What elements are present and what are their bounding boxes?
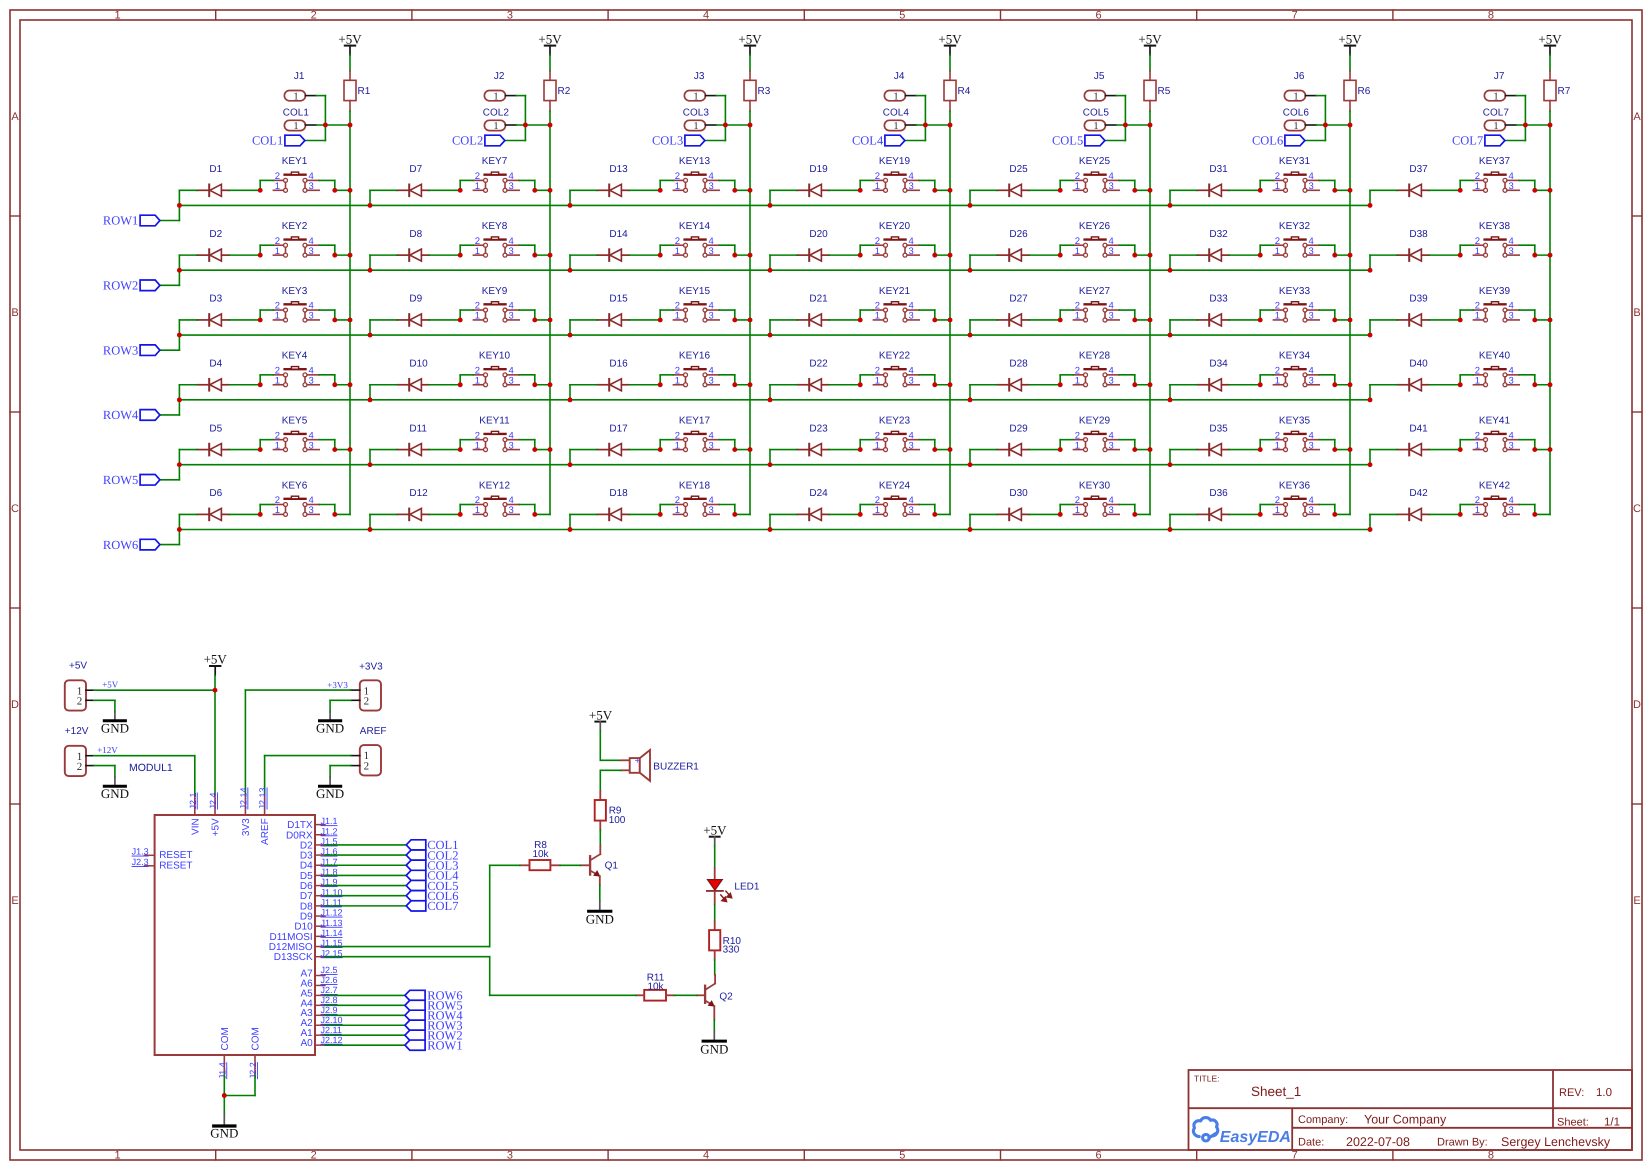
svg-text:R4: R4 [958,86,971,97]
MODUL1 pin D8 (J1.11) [300,897,342,912]
svg-text:KEY1: KEY1 [282,156,308,167]
svg-text:1: 1 [475,505,480,516]
MODUL1 pin A1 (J2.11) [300,1025,341,1039]
wire D4 to COL3 flag [325,864,406,866]
power +5V column 4 [938,31,962,55]
svg-text:1: 1 [475,440,480,451]
wire BUZZER1 to R9 [600,770,620,791]
svg-text:1: 1 [875,376,880,387]
key switch KEY17 [673,415,719,451]
diode D16 [597,358,629,390]
MODUL1 pin A3 (J2.9) [300,1005,337,1019]
wire D5 leads [179,450,260,465]
svg-text:D33: D33 [1209,294,1228,305]
wire A4 to ROW5 flag [325,1004,405,1006]
svg-text:COL7: COL7 [1483,108,1510,119]
svg-text:3: 3 [709,440,714,451]
svg-text:COL4: COL4 [852,134,884,148]
svg-text:1: 1 [1475,311,1480,322]
wire ROW1 bus [160,205,1370,220]
MODUL1 pin D6 (J1.9) [300,877,338,892]
svg-text:3: 3 [309,505,314,516]
svg-text:KEY7: KEY7 [482,156,508,167]
svg-text:COL6: COL6 [1283,108,1310,119]
key switch KEY21 [873,286,919,322]
svg-text:3: 3 [509,440,514,451]
svg-text:3: 3 [909,505,914,516]
svg-text:1: 1 [893,91,898,102]
wire KEY15 [660,310,750,320]
svg-text:D31: D31 [1209,164,1228,175]
wire KEY16 [660,375,750,385]
svg-text:1: 1 [675,376,680,387]
power +5V column 6 [1338,31,1362,55]
wire D12MISO to R8 [325,865,520,946]
junction KEY32 nodes [1168,253,1353,273]
netflag COL4 [852,134,905,148]
svg-text:COL2: COL2 [483,108,510,119]
svg-text:3: 3 [1509,440,1514,451]
key switch KEY1 [273,156,319,192]
connector +3V3 header [351,662,384,711]
svg-text:ROW5: ROW5 [103,473,138,487]
wire column COL6 vertical [1349,111,1351,514]
wire D26 leads [970,255,1060,270]
wire +5V to LED1 [714,846,716,869]
diode D38 [1397,229,1429,261]
svg-text:+5V: +5V [703,823,727,838]
wire ROW2 bus [160,270,1370,285]
svg-text:COL5: COL5 [1083,108,1110,119]
svg-text:330: 330 [723,945,740,956]
MODUL1 pin AREF (J2.13) [258,787,272,845]
netflag ROW3 (module) [405,1018,463,1032]
svg-text:3: 3 [1109,311,1114,322]
svg-text:D38: D38 [1409,229,1428,240]
svg-text:Sergey Lenchevsky: Sergey Lenchevsky [1501,1135,1611,1149]
svg-text:3: 3 [1109,376,1114,387]
svg-text:AREF: AREF [260,818,271,845]
wire A1 to ROW2 flag [325,1034,405,1036]
svg-text:6: 6 [1095,10,1101,22]
wire +5V header to +5V net [94,679,215,690]
wire KEY6 [260,505,350,515]
wire +3V3 pin2 to GND [330,700,351,711]
wire KEY40 [1460,375,1550,385]
wire D29 leads [970,450,1060,465]
svg-text:1: 1 [675,505,680,516]
MODUL1 pin D12MISO (J1.15) [269,938,343,953]
svg-text:1: 1 [275,246,280,257]
svg-text:D41: D41 [1409,423,1428,434]
transistor Q2 [697,975,733,1020]
svg-text:3: 3 [309,440,314,451]
diode D30 [997,488,1029,520]
svg-text:J2.14: J2.14 [238,787,248,809]
svg-text:D19: D19 [809,164,828,175]
diode D37 [1397,164,1429,196]
wire KEY4 [260,375,350,385]
svg-text:R6: R6 [1358,86,1371,97]
wire R10 to Q2 collector [714,960,716,975]
svg-text:100: 100 [609,815,626,826]
svg-text:5: 5 [899,10,905,22]
MODUL1 pin 3V3 (J2.14) [238,787,252,836]
diode D3 [197,294,229,326]
key switch KEY39 [1473,286,1519,322]
svg-text:1: 1 [1275,440,1280,451]
svg-text:3V3: 3V3 [241,818,252,836]
svg-text:1: 1 [475,246,480,257]
junction KEY27 nodes [968,317,1153,337]
connector COL6 pin [1283,108,1316,133]
svg-text:RESET: RESET [159,860,192,871]
wire +5V to R7 [1549,55,1551,71]
svg-text:D7: D7 [409,164,422,175]
diode D31 [1197,164,1229,196]
ground GND (+3V3 header) [316,712,344,736]
wire AREF pin2 to GND [330,766,351,777]
svg-text:Company:: Company: [1298,1114,1348,1126]
svg-text:J2.4: J2.4 [208,792,218,809]
led LED1 [706,868,760,904]
wire D23 leads [770,450,860,465]
junction KEY38 nodes [1368,253,1553,273]
svg-text:1: 1 [275,376,280,387]
transistor Q1 [580,846,618,886]
netflag COL3 [652,134,705,148]
svg-text:1: 1 [1293,121,1298,132]
svg-text:J6: J6 [1294,71,1305,82]
svg-text:D24: D24 [809,488,828,499]
key switch KEY13 [673,156,719,192]
module MODUL1 body [155,815,315,1055]
svg-text:GND: GND [700,1042,728,1057]
svg-text:KEY32: KEY32 [1279,221,1311,232]
junction KEY30 nodes [968,512,1138,532]
svg-text:3: 3 [1109,246,1114,257]
svg-text:J3: J3 [694,71,705,82]
svg-text:3: 3 [1109,505,1114,516]
wire KEY36 [1260,505,1350,515]
svg-text:R2: R2 [558,86,571,97]
junction KEY12 nodes [368,512,538,532]
svg-text:1: 1 [1475,505,1480,516]
wire +5V net vertical [214,675,216,795]
wire J4 to column [905,96,950,141]
wire D5 to COL4 flag [325,874,406,876]
wire D3 leads [179,320,260,335]
svg-text:1: 1 [275,440,280,451]
wire J3 to column [705,96,750,141]
wire KEY10 [460,375,550,385]
svg-text:ROW4: ROW4 [103,408,139,422]
connector COL1 pin [283,108,316,133]
netflag ROW5 [103,473,160,487]
wire D40 leads [1370,385,1460,400]
svg-text:3: 3 [1309,181,1314,192]
svg-text:ROW3: ROW3 [103,343,138,357]
svg-text:1: 1 [875,246,880,257]
wire KEY21 [860,310,950,320]
svg-text:A: A [1633,111,1641,123]
svg-text:KEY20: KEY20 [879,221,911,232]
svg-text:1: 1 [675,311,680,322]
wire KEY28 [1060,375,1150,385]
svg-text:1: 1 [1075,440,1080,451]
netflag ROW5 (module) [405,999,463,1013]
key switch KEY37 [1473,156,1519,192]
svg-text:3: 3 [909,246,914,257]
wire KEY7 [460,180,550,190]
svg-text:KEY18: KEY18 [679,480,711,491]
svg-text:COL3: COL3 [652,134,683,148]
wire KEY1 [260,180,350,190]
resistor R9 [595,791,626,830]
wire KEY14 [660,245,750,255]
netflag COL5 [1052,134,1105,148]
connector COL7 pin [1483,108,1516,133]
svg-text:3: 3 [509,181,514,192]
wire column COL1 vertical [349,111,351,514]
MODUL1 pin COM (J1.4) [217,1027,231,1079]
resistor R6 [1344,71,1371,111]
junction KEY21 nodes [768,317,953,337]
wire +5V to R6 [1349,55,1351,71]
svg-text:1: 1 [1075,181,1080,192]
wire Q1 emitter to GND [599,885,601,901]
svg-text:KEY14: KEY14 [679,221,711,232]
junction KEY14 nodes [568,253,753,273]
wire KEY18 [660,505,750,515]
svg-text:D2: D2 [209,229,222,240]
wire +12V to MODUL1 VIN [94,745,195,795]
wire D22 leads [770,385,860,400]
svg-text:1: 1 [1093,91,1098,102]
wire D31 leads [1170,190,1260,205]
svg-text:1: 1 [875,440,880,451]
wire D24 leads [770,514,860,529]
wire KEY27 [1060,310,1150,320]
wire D9 leads [370,320,460,335]
wire column COL5 vertical [1149,111,1151,514]
MODUL1 pin RESET (J1.3) [132,847,193,861]
wire ROW6 bus [160,530,1370,545]
key switch KEY26 [1073,221,1119,257]
svg-text:RESET: RESET [159,850,192,861]
svg-text:1: 1 [475,376,480,387]
svg-text:1: 1 [1475,181,1480,192]
MODUL1 pin D10 (J1.13) [294,918,342,933]
wire KEY22 [860,375,950,385]
key switch KEY14 [673,221,719,257]
svg-text:3: 3 [507,10,513,22]
wire D7 to COL6 flag [325,895,406,897]
diode D22 [797,358,829,390]
svg-text:3: 3 [709,246,714,257]
svg-text:1: 1 [893,121,898,132]
key switch KEY22 [873,351,919,387]
svg-text:COL7: COL7 [1452,134,1483,148]
svg-text:1: 1 [475,311,480,322]
svg-text:D32: D32 [1209,229,1228,240]
svg-text:3: 3 [1509,181,1514,192]
wire A2 to ROW3 flag [325,1024,405,1026]
key switch KEY31 [1273,156,1319,192]
svg-text:KEY16: KEY16 [679,351,711,362]
diode D27 [997,294,1029,326]
svg-text:D18: D18 [609,488,628,499]
junction KEY28 nodes [968,382,1153,402]
svg-text:3: 3 [509,505,514,516]
connector J4 [884,71,916,102]
svg-text:3: 3 [1309,376,1314,387]
wire +5V to R4 [949,55,951,71]
svg-text:10k: 10k [647,981,664,992]
netflag ROW4 [103,408,160,422]
svg-text:D42: D42 [1409,488,1428,499]
wire +3V3 to MODUL1 3V3 [245,680,350,795]
svg-text:J2.1: J2.1 [188,792,198,809]
key switch KEY4 [273,351,319,387]
svg-text:GND: GND [101,720,129,735]
svg-text:1: 1 [1275,246,1280,257]
wire KEY41 [1460,440,1550,450]
junction KEY19 nodes [768,188,953,208]
svg-text:D26: D26 [1009,229,1028,240]
MODUL1 pin +5V (J2.4) [208,792,222,836]
svg-text:+5V: +5V [1538,31,1562,46]
wire R8 to Q1 base [560,864,580,866]
svg-text:GND: GND [316,720,344,735]
svg-text:KEY11: KEY11 [479,415,510,426]
wire D16 leads [570,385,660,400]
netflag ROW1 [103,214,160,228]
svg-text:KEY29: KEY29 [1079,415,1111,426]
wire J7 to column [1505,96,1550,141]
netflag COL2 (module) [406,848,458,862]
wire D17 leads [570,450,660,465]
key switch KEY16 [673,351,719,387]
junction J7 net [1523,123,1553,128]
svg-text:D11: D11 [409,423,427,434]
wire D15 leads [570,320,660,335]
svg-text:KEY21: KEY21 [879,286,911,297]
svg-text:1: 1 [493,91,498,102]
diode D17 [597,423,629,455]
junction KEY3 nodes [177,317,352,337]
key switch KEY11 [473,415,519,451]
diode D1 [197,164,229,196]
diode D2 [197,229,229,261]
wire KEY31 [1260,180,1350,190]
MODUL1 pin D4 (J1.7) [300,857,338,872]
svg-text:3: 3 [709,181,714,192]
svg-text:KEY25: KEY25 [1079,156,1111,167]
diode D15 [597,294,629,326]
MODUL1 pin D2 (J1.5) [300,837,338,852]
svg-text:Drawn By:: Drawn By: [1437,1137,1488,1149]
wire KEY19 [860,180,950,190]
key switch KEY40 [1473,351,1519,387]
svg-text:1: 1 [493,121,498,132]
svg-text:KEY13: KEY13 [679,156,711,167]
wire KEY24 [860,505,950,515]
svg-text:J7: J7 [1494,71,1505,82]
wire D2 to COL1 flag [325,844,406,846]
wire KEY13 [660,180,750,190]
netflag COL1 (module) [406,838,458,852]
svg-text:3: 3 [1309,505,1314,516]
power +5V (module) [204,651,228,675]
junction J6 net [1323,123,1353,128]
svg-text:EasyEDA: EasyEDA [1220,1129,1291,1146]
svg-text:COM: COM [220,1027,231,1050]
svg-text:2: 2 [311,10,317,22]
wire D12 leads [370,514,460,529]
diode D8 [397,229,429,261]
ground GND (Q1) [586,901,614,927]
diode D20 [797,229,829,261]
key switch KEY23 [873,415,919,451]
wire D1 leads [179,190,260,205]
svg-text:J2.3: J2.3 [132,857,149,867]
svg-text:1: 1 [1475,440,1480,451]
ground GND (+12V header) [101,777,129,801]
MODUL1 pin COM (J2.2) [248,1027,262,1079]
wire D42 leads [1370,514,1460,529]
svg-text:6: 6 [1095,1150,1101,1162]
svg-text:KEY3: KEY3 [282,286,308,297]
svg-text:2: 2 [77,696,83,708]
netflag COL6 [1252,134,1305,148]
MODUL1 pin A4 (J2.8) [300,995,337,1009]
svg-text:1: 1 [1293,91,1298,102]
diode D35 [1197,423,1229,455]
svg-text:3: 3 [709,311,714,322]
wire D25 leads [970,190,1060,205]
svg-text:3: 3 [1309,311,1314,322]
svg-text:D14: D14 [609,229,628,240]
connector J1 [284,71,316,102]
svg-text:KEY24: KEY24 [879,480,911,491]
svg-text:1: 1 [1275,181,1280,192]
wire D34 leads [1170,385,1260,400]
svg-text:D13: D13 [609,164,628,175]
svg-text:1: 1 [693,121,698,132]
wire D35 leads [1170,450,1260,465]
svg-text:2: 2 [77,761,83,773]
svg-text:J1.1: J1.1 [321,816,338,826]
junction KEY24 nodes [768,512,938,532]
svg-text:D20: D20 [809,229,828,240]
svg-text:COL5: COL5 [1052,134,1083,148]
connector COL5 pin [1083,108,1116,133]
key switch KEY27 [1073,286,1119,322]
svg-text:1: 1 [1275,505,1280,516]
svg-text:1: 1 [475,181,480,192]
svg-text:KEY38: KEY38 [1479,221,1511,232]
svg-text:2: 2 [364,760,370,772]
diode D42 [1397,488,1429,520]
svg-text:KEY36: KEY36 [1279,480,1311,491]
svg-text:3: 3 [1109,181,1114,192]
junction KEY41 nodes [1368,447,1553,467]
wire D3 to COL2 flag [325,854,406,856]
wire D20 leads [770,255,860,270]
svg-text:1: 1 [293,91,298,102]
key switch KEY38 [1473,221,1519,257]
